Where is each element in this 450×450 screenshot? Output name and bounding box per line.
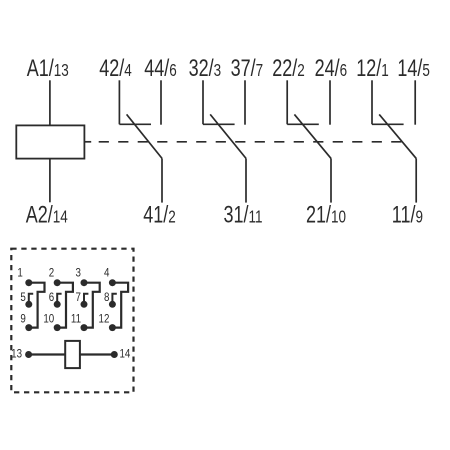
pin 7 dot: [81, 301, 88, 308]
svg-text:41/2: 41/2: [143, 202, 176, 228]
svg-text:14: 14: [120, 348, 131, 361]
contact 1 moving blade: [127, 114, 162, 158]
svg-text:8: 8: [104, 291, 109, 304]
svg-text:22/2: 22/2: [272, 56, 305, 82]
wire coil to pin 14: [80, 353, 114, 355]
wire blade pin 2 to pin 10: [57, 283, 73, 328]
svg-text:24/6: 24/6: [315, 56, 348, 82]
contact 4 NC fixed terminal wire: [371, 80, 373, 124]
svg-text:3: 3: [76, 267, 81, 280]
wire pin 13 to coil: [29, 353, 66, 355]
contact 2 fixed contact seat: [203, 123, 235, 125]
contact 3 moving blade: [294, 114, 331, 158]
pin 2 dot: [54, 279, 61, 286]
svg-text:11/9: 11/9: [392, 202, 423, 228]
contact 1 fixed contact seat: [119, 123, 151, 125]
pin 4 dot: [109, 279, 116, 286]
contact 4 fixed contact seat: [372, 123, 404, 125]
svg-text:32/3: 32/3: [189, 56, 222, 82]
wire blade pin 1 to pin 9: [29, 283, 45, 328]
contact 3 NC fixed terminal wire: [286, 80, 288, 124]
wire blade pin 3 to pin 11: [84, 283, 100, 328]
coil symbol between pins 13 and 14: [65, 341, 80, 368]
mechanical linkage (dashed): [84, 141, 91, 143]
contact 2 common terminal wire: [245, 158, 247, 202]
pin 1 dot: [25, 279, 32, 286]
svg-text:14/5: 14/5: [397, 56, 430, 82]
svg-text:9: 9: [20, 313, 25, 326]
contact 3 NO fixed terminal wire: [329, 80, 331, 124]
svg-text:44/6: 44/6: [144, 56, 177, 82]
pin 6 dot: [54, 301, 61, 308]
svg-text:12: 12: [99, 313, 110, 326]
pin 11 dot: [81, 324, 88, 331]
contact 1 common terminal wire: [161, 158, 163, 202]
svg-text:11: 11: [71, 313, 81, 326]
contact 1 NC fixed terminal wire: [118, 80, 120, 124]
contact 4 NO fixed terminal wire: [414, 80, 416, 124]
contact 4 common terminal wire: [415, 158, 417, 202]
svg-text:21/10: 21/10: [306, 202, 346, 228]
pin 12 dot: [109, 324, 116, 331]
pin 5 dot: [25, 301, 32, 308]
svg-text:5: 5: [20, 291, 25, 304]
pin 9 dot: [25, 324, 32, 331]
svg-text:A1/13: A1/13: [27, 56, 69, 82]
pin 10 dot: [54, 324, 61, 331]
relay base outline (dashed): [11, 249, 133, 393]
contact 4 moving blade: [379, 114, 416, 158]
svg-text:A2/14: A2/14: [26, 202, 68, 228]
svg-text:1: 1: [17, 267, 22, 280]
pin 14 dot: [111, 351, 118, 358]
svg-text:13: 13: [11, 348, 22, 361]
pin 8 contact stub: [112, 294, 116, 305]
wire coil terminal A2: [49, 159, 51, 203]
svg-text:6: 6: [49, 291, 54, 304]
svg-text:10: 10: [43, 313, 54, 326]
contact 2 moving blade: [210, 114, 246, 158]
contact 3 fixed contact seat: [287, 123, 319, 125]
contact 1 NO fixed terminal wire: [160, 80, 162, 124]
contact 2 NC fixed terminal wire: [202, 80, 204, 124]
contact 2 NO fixed terminal wire: [244, 80, 246, 124]
coil K1: [16, 125, 84, 158]
svg-text:7: 7: [76, 291, 81, 304]
wire coil terminal A1: [49, 80, 51, 125]
pin 5 contact stub: [29, 294, 33, 305]
svg-text:2: 2: [49, 267, 54, 280]
wire blade pin 4 to pin 12: [112, 283, 128, 328]
svg-text:4: 4: [104, 267, 109, 280]
pin 3 dot: [81, 279, 88, 286]
pin 7 contact stub: [84, 294, 88, 305]
svg-text:42/4: 42/4: [99, 56, 132, 82]
contact 3 common terminal wire: [330, 158, 332, 202]
svg-text:12/1: 12/1: [356, 56, 389, 82]
svg-text:31/11: 31/11: [223, 202, 262, 228]
pin 8 dot: [109, 301, 116, 308]
svg-text:37/7: 37/7: [231, 56, 264, 82]
pin 13 dot: [25, 351, 32, 358]
pin 6 contact stub: [57, 294, 61, 305]
